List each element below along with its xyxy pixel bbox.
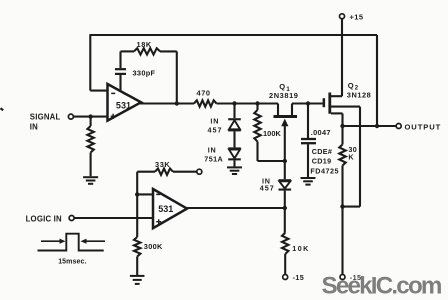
svg-text:-15: -15	[350, 273, 362, 282]
svg-text:.0047: .0047	[311, 128, 331, 137]
svg-text:2N3819: 2N3819	[269, 91, 299, 100]
svg-text:CDE#: CDE#	[312, 147, 332, 156]
svg-text:300K: 300K	[144, 242, 163, 251]
svg-text:18K: 18K	[137, 40, 152, 49]
svg-text:LOGIC IN: LOGIC IN	[26, 215, 62, 224]
svg-text:531: 531	[116, 100, 131, 110]
svg-text:SIGNAL: SIGNAL	[30, 113, 61, 122]
svg-text:10K: 10K	[292, 244, 309, 253]
svg-text:-15: -15	[293, 273, 305, 282]
svg-text:CD19: CD19	[312, 157, 332, 166]
svg-text:Q: Q	[279, 82, 285, 91]
svg-text:K: K	[348, 153, 354, 162]
svg-text:470: 470	[197, 89, 211, 98]
svg-text:457: 457	[260, 184, 275, 193]
svg-text:457: 457	[208, 126, 223, 135]
svg-text:OUTPUT: OUTPUT	[405, 122, 442, 131]
svg-text:IN: IN	[30, 123, 38, 132]
svg-text:100K: 100K	[263, 129, 281, 138]
svg-text:531: 531	[158, 204, 173, 214]
svg-text:Q: Q	[348, 81, 354, 90]
svg-text:330pF: 330pF	[133, 69, 156, 78]
svg-text:3N128: 3N128	[347, 90, 372, 99]
svg-text:+15: +15	[350, 12, 364, 21]
svg-text:15msec.: 15msec.	[58, 259, 86, 266]
svg-text:FD4725: FD4725	[310, 167, 339, 176]
svg-text:751A: 751A	[204, 154, 223, 163]
svg-text:33K: 33K	[155, 160, 170, 169]
svg-text:IN: IN	[210, 117, 219, 126]
svg-text:IN: IN	[208, 146, 217, 155]
